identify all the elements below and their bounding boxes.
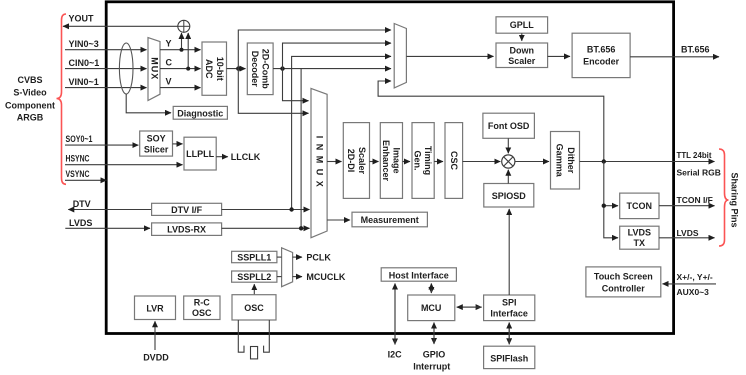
SSPLL1 box: [232, 251, 277, 262]
svg-text:I N M U X: I N M U X: [315, 136, 325, 189]
LVR box: [135, 296, 176, 320]
wire DTV IF to inmux: [222, 209, 310, 211]
svg-text:TCON I/F: TCON I/F: [677, 195, 713, 205]
svg-text:Down: Down: [510, 46, 535, 56]
wire DVDD to LVR: [154, 321, 156, 350]
mux IN MUX: [311, 88, 327, 237]
Scaler box: [343, 123, 369, 199]
wire enhancer to timing: [403, 161, 411, 163]
svg-text:LLPLL: LLPLL: [186, 149, 214, 159]
wire LLCLK: [216, 156, 228, 158]
wire DTV in: [68, 209, 151, 211]
svg-text:CSC: CSC: [449, 151, 459, 171]
svg-text:X+/-, Y+/-: X+/-, Y+/-: [677, 272, 713, 282]
svg-text:Scaler: Scaler: [357, 147, 367, 175]
svg-text:TX: TX: [634, 238, 646, 248]
wire V: [160, 87, 201, 89]
node junction C: [186, 67, 190, 71]
node ADC junction: [236, 66, 240, 70]
wire inmux to scaler: [327, 161, 341, 163]
svg-text:I2C: I2C: [388, 350, 403, 360]
svg-text:OSC: OSC: [244, 303, 264, 313]
svg-text:R-C: R-C: [194, 298, 210, 308]
wire HSYNC: [65, 164, 183, 166]
svg-text:Interface: Interface: [490, 309, 528, 319]
node decoder junction: [280, 66, 284, 70]
MCU box: [408, 295, 455, 321]
svg-text:Encoder: Encoder: [583, 57, 620, 67]
svg-text:V: V: [166, 77, 172, 87]
wire LVDS in: [65, 227, 150, 229]
svg-text:Font OSD: Font OSD: [488, 121, 530, 131]
svg-text:Scaler: Scaler: [508, 56, 536, 66]
svg-text:ARGB: ARGB: [17, 113, 44, 123]
wire to Diagnostic: [126, 94, 171, 113]
wire ADC down to inmux: [238, 69, 308, 114]
svg-text:Sharing Pins: Sharing Pins: [730, 172, 740, 227]
wire mult to dither: [515, 161, 549, 163]
wire touch in: [663, 283, 717, 285]
brace CVBS group: [57, 14, 67, 184]
Font OSD box: [483, 113, 535, 138]
LLPLL box: [184, 137, 216, 170]
svg-text:GPIO: GPIO: [423, 350, 446, 360]
wire timing to csc: [434, 161, 443, 163]
wire I2C: [394, 284, 396, 345]
svg-text:DVDD: DVDD: [143, 353, 169, 363]
mux MUX1: [148, 38, 160, 101]
SPI OSD box: [484, 184, 534, 208]
svg-text:Controller: Controller: [602, 284, 645, 294]
SPI Flash box: [484, 346, 535, 368]
wire C: [160, 68, 201, 70]
wire spi to spiosd: [508, 209, 510, 295]
wire DownScaler to encoder: [548, 55, 570, 57]
SSPLL2 box: [232, 271, 277, 282]
svg-text:S-Video: S-Video: [13, 88, 47, 98]
wire YIN: [65, 49, 147, 51]
wire PCLK: [293, 256, 302, 258]
CSC box: [445, 123, 463, 199]
ADC box: [202, 42, 227, 95]
DTV IF box: [152, 203, 222, 215]
svg-text:SOY: SOY: [147, 134, 166, 144]
svg-text:YIN0~3: YIN0~3: [69, 39, 99, 49]
wire DTV up to mux2: [292, 56, 391, 209]
svg-text:Interrupt: Interrupt: [413, 362, 450, 372]
svg-text:2D-Comb: 2D-Comb: [261, 49, 271, 90]
wire ADC bypass to mux2: [238, 30, 391, 69]
timing gen box: [412, 123, 434, 199]
svg-text:Host Interface: Host Interface: [389, 270, 449, 280]
LVDS TX box: [620, 226, 659, 249]
GPLL box: [496, 17, 548, 33]
wire decoder out: [273, 68, 391, 70]
svg-text:CIN0~1: CIN0~1: [69, 58, 100, 68]
wire TCON out: [659, 205, 715, 207]
wire BT656 out: [630, 56, 719, 58]
wire mux2 to DownScaler: [406, 55, 493, 57]
svg-text:HSYNC: HSYNC: [66, 153, 90, 163]
svg-text:MCU: MCU: [421, 303, 442, 313]
wire inmux to measurement: [327, 219, 350, 221]
svg-text:TTL 24bit: TTL 24bit: [677, 150, 712, 160]
wire VSYNC: [65, 179, 107, 181]
wire feedback to mux2: [378, 81, 604, 162]
wire SOY: [65, 144, 138, 146]
wire bus down: [604, 162, 618, 238]
svg-text:DTV I/F: DTV I/F: [171, 205, 203, 215]
wire sspll2 to mux3: [277, 276, 282, 278]
Dither Gamma box: [551, 132, 580, 190]
Touch Screen Controller box: [586, 267, 661, 297]
wire spiosd to mult: [507, 170, 509, 184]
BT656 encoder box: [572, 33, 630, 77]
wire LVDS up: [300, 69, 302, 229]
svg-text:LVDS-RX: LVDS-RX: [167, 225, 206, 235]
svg-text:SOY0~1: SOY0~1: [66, 134, 93, 144]
node LVDS junction: [299, 226, 303, 230]
crystal: [238, 320, 269, 359]
svg-text:VIN0~1: VIN0~1: [69, 77, 99, 87]
svg-text:Y: Y: [166, 39, 172, 49]
svg-text:LVDS: LVDS: [628, 228, 651, 238]
svg-text:SPI: SPI: [502, 298, 517, 308]
svg-text:Decoder: Decoder: [250, 51, 260, 88]
svg-text:SSPLL1: SSPLL1: [237, 252, 271, 262]
wire scaler to enhancer: [370, 161, 379, 163]
svg-text:MCUCLK: MCUCLK: [306, 272, 345, 282]
Host Interface box: [381, 268, 456, 281]
multiplier circle: [502, 155, 515, 168]
svg-text:VSYNC: VSYNC: [66, 169, 90, 179]
svg-text:2D-DI: 2D-DI: [346, 149, 356, 173]
svg-text:LVR: LVR: [146, 303, 164, 313]
node TCON junction: [602, 204, 606, 208]
svg-text:Serial RGB: Serial RGB: [677, 168, 721, 178]
svg-text:Gamma: Gamma: [555, 144, 565, 178]
wire Y: [160, 49, 201, 51]
node junction Y: [180, 48, 184, 52]
svg-text:SSPLL2: SSPLL2: [237, 272, 271, 282]
wire decoder down to inmux: [283, 69, 309, 101]
svg-text:CVBS: CVBS: [17, 75, 42, 85]
wire YOUT: [63, 25, 179, 27]
wire csc to mult: [463, 161, 501, 163]
svg-text:GPLL: GPLL: [510, 20, 535, 30]
wire fontosd to mult: [507, 138, 509, 153]
decoder 2D-Comb box: [247, 43, 273, 95]
cable ellipse: [119, 43, 133, 94]
svg-text:Timing: Timing: [423, 146, 433, 175]
svg-text:SPIFlash: SPIFlash: [490, 353, 528, 363]
wire GPLL to DownScaler: [521, 33, 523, 41]
wire host-mcu: [430, 284, 432, 294]
wire C to adder: [187, 33, 189, 69]
wire spi-flash: [508, 323, 510, 345]
svg-text:BT.656: BT.656: [587, 45, 616, 55]
SPI Interface box: [484, 295, 535, 321]
svg-text:10-bit: 10-bit: [215, 57, 225, 81]
svg-text:Touch Screen: Touch Screen: [594, 272, 653, 282]
TCON box: [620, 193, 659, 219]
wire slicer to llpll: [173, 143, 183, 145]
wire sspll1 to mux3: [277, 256, 282, 258]
svg-text:PCLK: PCLK: [306, 252, 331, 262]
wire Y to adder: [181, 33, 183, 50]
svg-text:Diagnostic: Diagnostic: [177, 108, 223, 118]
svg-text:Enhancer: Enhancer: [381, 140, 391, 182]
svg-text:Slicer: Slicer: [144, 145, 169, 155]
mux MUX3: [282, 248, 293, 287]
DownScaler box: [496, 43, 548, 68]
svg-text:Measurement: Measurement: [361, 215, 419, 225]
svg-text:ADC: ADC: [204, 59, 214, 79]
wire ADC out: [227, 68, 246, 70]
SOY slicer box: [140, 131, 173, 156]
chip boundary: [106, 2, 673, 334]
svg-text:LVDS: LVDS: [677, 228, 699, 238]
svg-text:YOUT: YOUT: [69, 14, 95, 24]
adder circle: [178, 20, 190, 32]
svg-text:BT.656: BT.656: [681, 45, 710, 55]
mux MUX2: [394, 24, 406, 88]
svg-text:SPIOSD: SPIOSD: [492, 191, 527, 201]
wire VIN: [65, 87, 147, 89]
wire CIN: [65, 68, 147, 70]
svg-text:Dither: Dither: [566, 147, 576, 174]
wire mcu-spi: [457, 306, 482, 308]
svg-text:Component: Component: [5, 100, 55, 110]
node TTL junction: [602, 159, 606, 163]
svg-text:TCON: TCON: [627, 201, 653, 211]
wire osc to sspll2: [253, 284, 255, 295]
wire decoder to mux2: [283, 43, 392, 69]
svg-text:DTV: DTV: [73, 199, 91, 209]
svg-text:OSC: OSC: [192, 308, 212, 318]
svg-text:Image: Image: [392, 147, 402, 173]
svg-text:AUX0~3: AUX0~3: [677, 287, 710, 297]
wire bus to TCON: [604, 205, 618, 207]
LVDS-RX box: [152, 223, 222, 236]
wire TTL out: [580, 161, 715, 163]
enhancer box: [380, 123, 402, 199]
svg-text:C: C: [166, 58, 173, 68]
svg-text:LVDS: LVDS: [69, 218, 92, 228]
wire LVDS-RX to inmux: [222, 227, 310, 229]
Diagnostic box: [173, 106, 227, 119]
svg-text:MUX: MUX: [150, 57, 160, 80]
Measurement box: [352, 212, 427, 227]
wire GPIO: [433, 323, 435, 344]
brace sharing pins: [719, 149, 729, 246]
node DTV junction: [289, 207, 293, 211]
svg-text:LLCLK: LLCLK: [231, 152, 261, 162]
label CVBS S-Video Component ARGB: [5, 75, 55, 123]
wire MCUCLK: [293, 276, 302, 278]
RC OSC box: [184, 296, 220, 320]
wire LVDS out: [659, 237, 715, 239]
svg-text:Gen.: Gen.: [413, 150, 423, 170]
OSC box: [232, 295, 276, 320]
